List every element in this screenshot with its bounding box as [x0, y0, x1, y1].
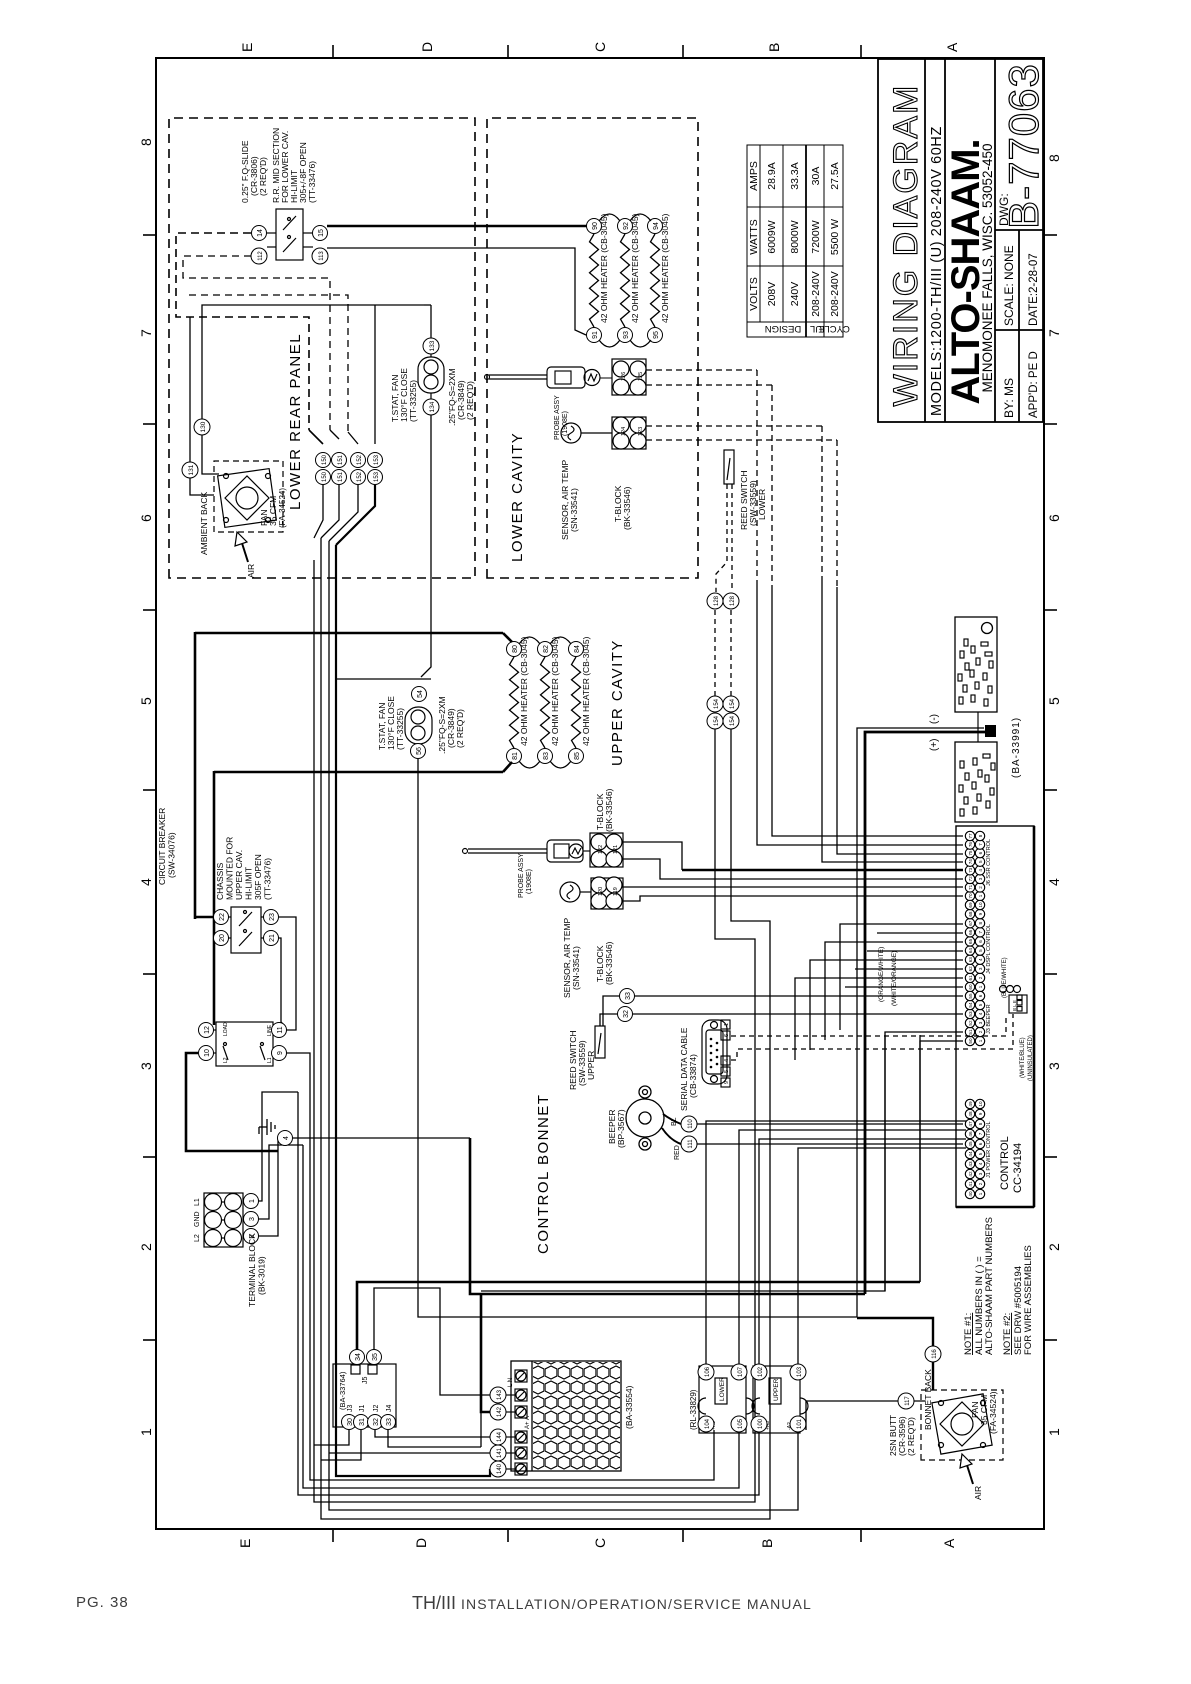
svg-text:154: 154 — [730, 698, 736, 709]
wire circle 1 to bundle — [259, 1092, 298, 1201]
svg-text:42: 42 — [968, 1171, 973, 1177]
svg-text:5: 5 — [978, 1152, 983, 1155]
wire thick 22 up — [195, 916, 214, 919]
wire bundle feed to t'stat junction — [336, 678, 431, 680]
svg-text:AMPS: AMPS — [748, 161, 760, 191]
svg-text:UPPER CAV.: UPPER CAV. — [234, 850, 244, 900]
svg-text:L2: L2 — [194, 1234, 201, 1242]
svg-text:30: 30 — [347, 1418, 354, 1426]
thin long bus x239 — [481, 1035, 885, 1291]
svg-text:133: 133 — [429, 340, 436, 351]
inter-section link wire — [977, 712, 979, 742]
svg-text:54: 54 — [968, 1002, 973, 1008]
smd components right section — [958, 639, 993, 706]
svg-text:LOWER: LOWER — [757, 489, 767, 520]
svg-text:AMBIENT BACK: AMBIENT BACK — [199, 492, 209, 555]
svg-text:240V: 240V — [789, 282, 801, 307]
svg-text:119: 119 — [613, 887, 619, 896]
svg-text:1: 1 — [249, 1199, 256, 1203]
circle 134 — [423, 399, 439, 415]
svg-text:10: 10 — [978, 902, 983, 908]
svg-text:71: 71 — [968, 884, 973, 890]
connector group J6 SSR CONTROL — [965, 831, 984, 900]
svg-text:J1 POWER CONTROL: J1 POWER CONTROL — [986, 1121, 992, 1178]
svg-text:143: 143 — [497, 1389, 503, 1400]
svg-text:152: 152 — [357, 471, 363, 482]
svg-text:150: 150 — [322, 454, 328, 465]
dashed tails reed lower to 128 — [716, 484, 732, 592]
svg-text:42 OHM HEATER (CB-3045): 42 OHM HEATER (CB-3045) — [660, 213, 670, 323]
circle 12 — [199, 1023, 214, 1038]
svg-text:1: 1 — [978, 985, 983, 988]
svg-text:85: 85 — [574, 752, 581, 760]
label TERMINAL BLOCK (BK-3019) — [247, 1233, 267, 1307]
svg-text:121: 121 — [613, 845, 619, 854]
svg-text:150: 150 — [322, 471, 328, 482]
AIR arrow bonnet — [960, 1454, 983, 1500]
svg-text:(FA-34524): (FA-34524) — [278, 488, 287, 528]
svg-text:(SN-33541): (SN-33541) — [569, 488, 579, 532]
svg-text:66: 66 — [968, 929, 973, 935]
relay UPPER — [752, 1366, 808, 1433]
label PROBE ASSY (1908E) — [554, 395, 569, 440]
svg-text:117: 117 — [905, 1396, 911, 1406]
circle 116 — [925, 1346, 941, 1362]
circle 117 — [898, 1393, 914, 1409]
svg-text:6009W: 6009W — [766, 220, 778, 253]
smd components left section — [959, 754, 995, 816]
svg-text:33: 33 — [625, 992, 632, 1000]
svg-text:124: 124 — [621, 427, 627, 436]
circle 15 — [313, 226, 328, 241]
fan FA-34524 (ambient back) — [218, 469, 277, 528]
svg-text:(SW-34076): (SW-34076) — [167, 832, 177, 878]
svg-text:94: 94 — [653, 222, 660, 230]
svg-text:UPPER CAVITY: UPPER CAVITY — [609, 639, 626, 766]
svg-text:65: 65 — [968, 938, 973, 944]
heater bridge arcs upper — [519, 637, 571, 768]
svg-text:3: 3 — [978, 877, 983, 880]
svg-text:MENOMONEE FALLS, WISC. 53052-4: MENOMONEE FALLS, WISC. 53052-450 — [980, 143, 995, 392]
serial pin boxes — [721, 1020, 730, 1087]
svg-text:68: 68 — [968, 911, 973, 917]
svg-text:50: 50 — [968, 1038, 973, 1044]
circle 23 — [264, 910, 279, 925]
circle 11 — [272, 1023, 287, 1038]
svg-text:54: 54 — [417, 690, 424, 698]
svg-text:41: 41 — [968, 1181, 973, 1187]
svg-text:6: 6 — [978, 851, 983, 854]
svg-text:3: 3 — [978, 1172, 983, 1175]
svg-text:305F OPEN: 305F OPEN — [253, 854, 263, 900]
svg-text:(BA-33764): (BA-33764) — [338, 1371, 347, 1410]
svg-text:123: 123 — [638, 427, 644, 436]
PS terminal screws — [515, 1370, 527, 1475]
svg-text:208-240V: 208-240V — [810, 271, 822, 317]
wire 154 return lower — [321, 538, 770, 1519]
heater 2 upper — [538, 636, 561, 763]
circle 131 — [182, 462, 198, 478]
zone numbers right edge — [1046, 154, 1062, 162]
svg-text:2: 2 — [978, 976, 983, 979]
relay coil wires to control J1 — [706, 1121, 966, 1364]
svg-text:(RL-33829): (RL-33829) — [689, 1389, 698, 1430]
svg-text:4: 4 — [978, 1012, 983, 1015]
drawing frame border — [156, 58, 1044, 1529]
svg-text:J3: J3 — [347, 1405, 354, 1413]
svg-text:BL: BL — [671, 1117, 678, 1126]
svg-text:140: 140 — [497, 1463, 503, 1474]
connector group J1 POWER CONTROL — [965, 1099, 984, 1198]
T-block 119/120 upper — [591, 877, 623, 909]
label T-BLOCK (BK-33546) upper — [595, 788, 614, 832]
svg-text:91: 91 — [592, 331, 599, 339]
circles 140-144 — [490, 1387, 506, 1477]
svg-text:(TT-33255): (TT-33255) — [395, 708, 405, 750]
svg-text:154: 154 — [714, 715, 720, 726]
probe assy lower — [485, 367, 601, 388]
svg-text:UPPER: UPPER — [586, 1051, 596, 1080]
svg-text:4: 4 — [978, 1162, 983, 1165]
svg-text:107: 107 — [738, 1366, 744, 1377]
footer manual title — [412, 1593, 812, 1614]
hi-limit switch TT-33476 (R.R. mid section) — [267, 209, 313, 260]
svg-text:56: 56 — [416, 747, 423, 755]
svg-text:80: 80 — [512, 645, 519, 653]
svg-text:J5: J5 — [362, 1377, 369, 1385]
svg-text:5: 5 — [978, 860, 983, 863]
svg-text:134: 134 — [429, 401, 436, 412]
svg-text:CIRCUIT BREAKER: CIRCUIT BREAKER — [157, 808, 167, 885]
svg-text:102: 102 — [758, 1366, 764, 1377]
svg-text:(BK-3019): (BK-3019) — [257, 1256, 267, 1295]
label BEEPER (BP-3567) — [607, 1109, 626, 1148]
svg-text:105: 105 — [738, 1418, 744, 1429]
label PROBE ASSY (1908E) upper — [518, 853, 533, 898]
dashed wire 123 down — [646, 439, 837, 441]
svg-text:PROBE ASSY: PROBE ASSY — [554, 395, 561, 440]
svg-text:3: 3 — [978, 967, 983, 970]
svg-text:CYCLE: CYCLE — [818, 323, 850, 334]
label chassis hi-limit — [215, 837, 273, 900]
svg-text:23: 23 — [269, 913, 276, 921]
svg-text:35 CFM: 35 CFM — [268, 496, 278, 526]
svg-text:7: 7 — [978, 1132, 983, 1135]
svg-text:CHASSIS: CHASSIS — [215, 862, 225, 900]
svg-text:95: 95 — [653, 331, 660, 339]
svg-text:208-240V: 208-240V — [829, 271, 841, 317]
reed upper wires — [600, 996, 963, 1026]
svg-text:(BK-33546): (BK-33546) — [604, 941, 614, 985]
label .25'FQ-S=2XM (CR-3849) (2 REQ'D) — [447, 368, 475, 426]
thick V+ wire to display — [865, 732, 985, 1294]
svg-text:27.5A: 27.5A — [829, 162, 841, 189]
zone letters top edge — [239, 43, 255, 52]
svg-text:142: 142 — [497, 1406, 503, 1417]
svg-text:112: 112 — [258, 251, 264, 261]
svg-text:63: 63 — [968, 957, 973, 963]
svg-text:62: 62 — [968, 966, 973, 972]
circle 110 — [681, 1116, 697, 1132]
connector group J3 BEEPER — [965, 991, 984, 1045]
dashed 128 to 154 — [715, 609, 731, 696]
wire circle 4 down + thick V+ feed — [293, 1137, 470, 1139]
svg-text:HI-LIMIT: HI-LIMIT — [244, 867, 254, 900]
svg-text:47: 47 — [968, 1121, 973, 1127]
circle 9 — [272, 1046, 287, 1061]
svg-text:20: 20 — [219, 934, 226, 942]
svg-text:151: 151 — [338, 471, 344, 482]
label REED SWITCH (SW-33559) LOWER — [739, 471, 767, 531]
svg-text:111: 111 — [688, 1139, 694, 1149]
svg-text:RED: RED — [674, 1145, 681, 1160]
circle 20 — [214, 931, 229, 946]
circle 33 — [620, 989, 635, 1004]
svg-text:110: 110 — [688, 1119, 694, 1129]
svg-text:AIR: AIR — [246, 564, 256, 578]
svg-text:9: 9 — [724, 1081, 730, 1084]
svg-text:75: 75 — [968, 850, 973, 856]
svg-text:128: 128 — [730, 595, 736, 606]
wires sensor T-block to J6 — [622, 886, 963, 888]
svg-text:4: 4 — [724, 1059, 730, 1062]
svg-text:9: 9 — [978, 912, 983, 915]
label T.STAT, FAN 130F CLOSE (TT-33255) — [390, 368, 418, 422]
svg-text:4: 4 — [978, 869, 983, 872]
svg-text:6: 6 — [724, 1034, 730, 1037]
heater 2 lower — [618, 213, 641, 342]
wire: dashed path B (hi-limit 112 to splice 151) — [183, 256, 330, 430]
svg-text:28.9A: 28.9A — [766, 162, 778, 189]
svg-text:1: 1 — [978, 1192, 983, 1195]
svg-text:NOTE #1:: NOTE #1: — [963, 1313, 974, 1355]
svg-text:LOAD: LOAD — [223, 1022, 229, 1036]
svg-text:60: 60 — [968, 984, 973, 990]
zone numbers left edge — [138, 138, 154, 146]
svg-text:(TT-33476): (TT-33476) — [263, 858, 273, 900]
svg-text:81: 81 — [512, 752, 519, 760]
wires splice tails to bundle — [314, 485, 358, 541]
wires T-block 121/122 to J6 — [622, 842, 682, 870]
heater 3 lower — [648, 213, 671, 342]
svg-text:42 OHM HEATER (CB-3045): 42 OHM HEATER (CB-3045) — [550, 636, 560, 746]
svg-text:NOTE #2:: NOTE #2: — [1002, 1313, 1013, 1355]
dashed wire 124 down — [646, 425, 822, 427]
svg-text:MOUNTED FOR: MOUNTED FOR — [225, 837, 235, 900]
BLE connector — [1000, 986, 1028, 1014]
label CIRCUIT BREAKER (SW-34076) — [157, 808, 177, 885]
svg-text:32: 32 — [623, 1010, 630, 1018]
circles 30,31,32,33 + J labels — [342, 1415, 396, 1430]
svg-text:14: 14 — [257, 229, 264, 237]
svg-text:154: 154 — [730, 715, 736, 726]
svg-text:WATTS: WATTS — [748, 219, 760, 255]
wire: dashed path C (to splice 152) — [189, 295, 348, 432]
label 2SN BUTT (CR-3596) (2 REQ'D) — [888, 1415, 916, 1456]
svg-text:42 OHM HEATER (CB-3045): 42 OHM HEATER (CB-3045) — [630, 213, 640, 323]
svg-text:(TT-33476): (TT-33476) — [307, 161, 317, 203]
label SERIAL DATA CABLE (CB-33874) — [679, 1027, 698, 1111]
svg-text:SCALE: NONE: SCALE: NONE — [1002, 245, 1016, 326]
wire: thick feed to heater 80 — [195, 632, 503, 635]
svg-text:103: 103 — [797, 1366, 803, 1377]
svg-text:(CB-33874): (CB-33874) — [688, 1054, 698, 1098]
dashed wire 125 down — [646, 384, 772, 386]
wire circle 3 — [259, 1145, 303, 1219]
circle 14 — [252, 226, 267, 241]
ambient fan dashed box — [214, 461, 283, 532]
svg-text:CONTROL: CONTROL — [999, 1136, 1011, 1190]
svg-text:J6 SSR CONTROL: J6 SSR CONTROL — [986, 839, 992, 886]
wire breaker 9 to bundle — [287, 1053, 714, 1480]
beeper leads — [663, 1114, 681, 1124]
svg-text:67: 67 — [968, 920, 973, 926]
svg-text:6: 6 — [978, 994, 983, 997]
svg-text:11: 11 — [277, 1026, 284, 1033]
wire 23 to breaker 11 — [279, 917, 296, 1030]
svg-text:PROBE ASSY: PROBE ASSY — [518, 853, 525, 898]
svg-text:84: 84 — [574, 645, 581, 653]
svg-text:208V: 208V — [766, 282, 778, 307]
svg-text:72: 72 — [968, 876, 973, 882]
label 0.25" F.Q-SLIDE (CR-3806) (2 REQ'D) — [240, 140, 268, 203]
label REED SWITCH (SW-33559) UPPER — [568, 1031, 596, 1091]
wire 154 return upper — [314, 560, 755, 1502]
svg-text:61: 61 — [968, 975, 973, 981]
label SENSOR, AIR TEMP (SN-33541) upper — [562, 918, 581, 998]
svg-text:34: 34 — [355, 1353, 362, 1361]
svg-text:48: 48 — [968, 1111, 973, 1117]
circle 3 — [244, 1212, 259, 1227]
svg-text:130: 130 — [200, 421, 207, 432]
svg-text:104: 104 — [705, 1418, 711, 1429]
svg-text:35: 35 — [372, 1353, 379, 1361]
svg-text:(WHITE/BLUE): (WHITE/BLUE) — [1020, 1037, 1026, 1078]
svg-text:33.3A: 33.3A — [789, 162, 801, 189]
beeper wires to J1 — [697, 1123, 963, 1125]
circle 54 — [412, 687, 427, 702]
svg-text:7: 7 — [978, 931, 983, 934]
svg-text:GND: GND — [194, 1211, 201, 1227]
svg-text:100: 100 — [758, 1418, 764, 1429]
heater 1 lower 42 OHM (CB-3045) — [587, 213, 610, 342]
svg-text:120: 120 — [598, 887, 604, 896]
svg-text:126: 126 — [621, 372, 627, 381]
svg-text:(2 REQ'D): (2 REQ'D) — [258, 157, 268, 196]
svg-text:1: 1 — [978, 894, 983, 897]
circle 1 — [244, 1194, 259, 1209]
svg-text:8: 8 — [978, 921, 983, 924]
svg-text:40: 40 — [968, 1191, 973, 1197]
footer page number — [76, 1594, 129, 1611]
svg-text:125: 125 — [638, 372, 644, 381]
dashed box LOWER REAR PANEL — [169, 118, 475, 578]
label CR-3849 upper — [437, 696, 465, 754]
svg-text:52: 52 — [968, 1020, 973, 1026]
svg-text:LOWER CAVITY: LOWER CAVITY — [509, 432, 526, 562]
T-block 123/124 (BK-33546) lower — [612, 417, 646, 449]
heater 1 upper — [507, 636, 530, 763]
svg-text:TERMINAL BLOCK: TERMINAL BLOCK — [247, 1233, 257, 1307]
circle 111 — [681, 1136, 697, 1152]
circle 113 — [312, 248, 328, 264]
svg-text:93: 93 — [623, 331, 630, 339]
circle 10 — [199, 1046, 214, 1061]
svg-text:FOR WIRE ASSEMBLIES: FOR WIRE ASSEMBLIES — [1023, 1245, 1034, 1355]
label T-BLOCK (BK-33546) upper2 — [595, 941, 614, 985]
svg-text:69: 69 — [968, 902, 973, 908]
svg-text:9: 9 — [978, 1112, 983, 1115]
wire: thick bus (breaker 12 to heater 81) — [213, 771, 216, 1025]
svg-text:LOWER: LOWER — [719, 1377, 726, 1401]
circle 56 — [411, 744, 426, 759]
svg-text:74: 74 — [968, 859, 973, 865]
svg-text:L N: L N — [508, 1378, 514, 1387]
svg-text:CONTROL BONNET: CONTROL BONNET — [535, 1094, 552, 1254]
svg-text:42 OHM HEATER (CB-3045): 42 OHM HEATER (CB-3045) — [599, 213, 609, 323]
svg-text:12: 12 — [204, 1026, 211, 1034]
svg-text:(1908E): (1908E) — [526, 869, 533, 894]
svg-text:33: 33 — [386, 1418, 393, 1426]
svg-text:(BA-33991): (BA-33991) — [1011, 717, 1022, 778]
svg-text:154: 154 — [714, 698, 720, 709]
svg-text:UPPER: UPPER — [773, 1378, 780, 1401]
splice pair 151 — [332, 453, 347, 485]
svg-text:6: 6 — [978, 940, 983, 943]
svg-text:82: 82 — [543, 645, 550, 653]
svg-text:4: 4 — [978, 958, 983, 961]
splice pair 153 — [368, 453, 383, 485]
svg-text:122: 122 — [598, 845, 604, 854]
svg-text:7: 7 — [978, 843, 983, 846]
svg-text:(BA-33554): (BA-33554) — [624, 1385, 634, 1429]
fan FA-34524 bonnet — [932, 1394, 992, 1454]
label T.STAT FAN upper — [377, 696, 405, 750]
wire thick ground bus from breaker 10 — [186, 1053, 278, 1151]
wire 56 down-long (to minus bus) — [418, 728, 984, 1317]
svg-text:J4 DSPL CONTROL: J4 DSPL CONTROL — [986, 924, 992, 974]
svg-text:L2: L2 — [223, 1057, 229, 1063]
label T-BLOCK (BK-33546) lower — [613, 485, 632, 530]
ground symbol — [259, 1119, 275, 1135]
svg-text:B-77063: B-77063 — [1000, 63, 1045, 229]
ratings table — [747, 145, 843, 337]
label FAN 35 CFM FA-34524 — [970, 1391, 998, 1434]
svg-text:64: 64 — [968, 948, 973, 954]
svg-text:L1: L1 — [194, 1198, 201, 1206]
svg-text:3: 3 — [978, 1021, 983, 1024]
svg-text:2: 2 — [978, 1030, 983, 1033]
wire: 113 to heater 91 — [327, 248, 586, 335]
wire: thick top bus (chassis sw to heater) — [194, 632, 197, 919]
dashed wire 126 down — [646, 369, 757, 371]
svg-text:J3 BEEPER: J3 BEEPER — [986, 1004, 992, 1034]
circle 130 — [194, 419, 210, 435]
circle 4 — [278, 1131, 293, 1146]
title block — [878, 59, 1043, 422]
svg-text:(2 REQ'D): (2 REQ'D) — [465, 381, 475, 420]
svg-text:(ORANGE/WHITE): (ORANGE/WHITE) — [878, 947, 885, 1002]
svg-text:15: 15 — [318, 229, 325, 237]
svg-text:76: 76 — [968, 842, 973, 848]
svg-text:MODELS:1200-TH/III (U) 208-240: MODELS:1200-TH/III (U) 208-240V 60HZ — [929, 126, 945, 416]
svg-text:L1: L1 — [267, 1057, 273, 1063]
svg-text:ALTO-SHAAM PART NUMBERS: ALTO-SHAAM PART NUMBERS — [984, 1217, 995, 1355]
svg-text:5500 W: 5500 W — [829, 219, 841, 255]
thick branch to PS V+ (142) — [481, 1294, 490, 1412]
svg-text:32: 32 — [373, 1418, 380, 1426]
svg-text:J4: J4 — [386, 1405, 393, 1413]
